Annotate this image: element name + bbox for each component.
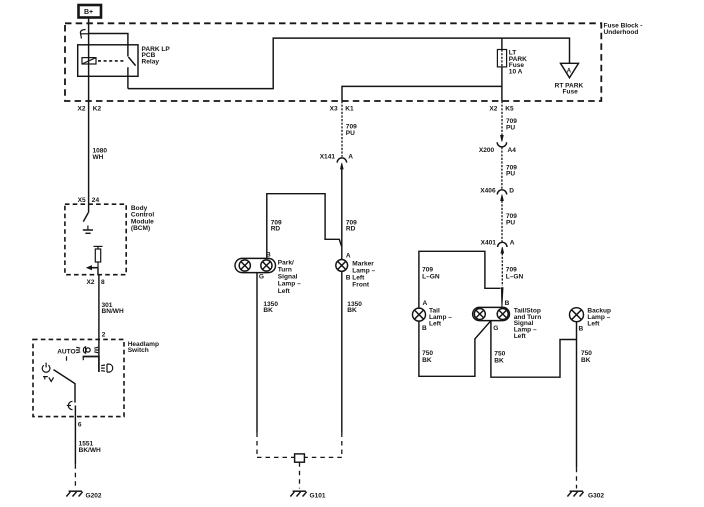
- lower contact hook: [67, 401, 73, 409]
- svg-text:750: 750: [422, 350, 433, 357]
- svg-text:Signal: Signal: [278, 274, 298, 281]
- svg-text:709: 709: [422, 267, 433, 274]
- headlamp on icon: [101, 364, 113, 372]
- pin labels X2 K2: [78, 106, 102, 113]
- BCM internal switch to ground: [83, 213, 93, 234]
- wire 301 BN/WH label: [102, 302, 124, 315]
- svg-text:B+: B+: [84, 9, 93, 16]
- wire park/turn lamp to splice: [256, 273, 258, 433]
- tail/stop and turn signal lamp left: [473, 300, 510, 332]
- BCM labels: [131, 205, 154, 232]
- headlamp on contact bar: [83, 357, 100, 373]
- wire 709 PU label (right top): [506, 118, 517, 131]
- marker lamp left front: [336, 252, 351, 281]
- wire X200 to X406 (dotted): [501, 147, 503, 190]
- AUTO position contact: [66, 356, 68, 360]
- wire X406 to X401 (dotted): [501, 201, 503, 243]
- svg-text:A4: A4: [508, 147, 517, 154]
- wire X141 down to marker lamp: [341, 169, 343, 259]
- svg-text:10 A: 10 A: [509, 69, 523, 76]
- svg-text:X5: X5: [78, 197, 86, 204]
- wire branch to X3/K1 pin: [342, 86, 502, 101]
- svg-text:PU: PU: [506, 220, 515, 227]
- headlamp switch labels: [128, 341, 159, 354]
- svg-text:Relay: Relay: [142, 58, 160, 65]
- RT PARK fuse labels: [555, 82, 584, 95]
- ground G302: [567, 491, 604, 499]
- wire driver to pin: [97, 268, 99, 275]
- svg-text:PU: PU: [506, 125, 515, 132]
- svg-text:PU: PU: [346, 130, 355, 137]
- svg-text:BK: BK: [263, 307, 273, 314]
- svg-text:A: A: [346, 252, 351, 259]
- relay PARK LP PCB box: [78, 45, 138, 77]
- connector X406: [480, 187, 514, 200]
- svg-text:8: 8: [101, 279, 105, 286]
- svg-text:RD: RD: [346, 226, 356, 233]
- svg-text:24: 24: [92, 197, 100, 204]
- wire 709 RD labels: [271, 219, 282, 232]
- svg-text:Front: Front: [352, 282, 370, 289]
- dashed wire to G101: [299, 462, 301, 488]
- wire B+ down to relay coil: [88, 18, 90, 101]
- svg-text:G: G: [259, 273, 264, 280]
- wire tail lamp to junction: [419, 321, 491, 377]
- park lamps icon: [76, 347, 99, 353]
- svg-text:B: B: [266, 251, 271, 258]
- wire 709 L-GN labels: [422, 267, 440, 281]
- svg-text:709: 709: [506, 267, 517, 274]
- wire 1080 WH label: [93, 148, 108, 161]
- tail lamp left: [413, 300, 428, 332]
- svg-text:BK: BK: [494, 358, 504, 365]
- wire backup lamp down to G302: [576, 322, 578, 468]
- svg-text:X2: X2: [78, 106, 86, 113]
- wire from relay switch to fuses: [128, 38, 570, 89]
- wire X3/K1 to X141 (dotted): [341, 101, 343, 157]
- svg-text:Lamp –: Lamp –: [278, 281, 301, 288]
- connector X401: [481, 240, 515, 254]
- svg-text:A: A: [510, 240, 515, 247]
- svg-text:Left: Left: [587, 321, 600, 328]
- svg-text:A: A: [423, 300, 428, 307]
- small park position icon: [43, 377, 54, 382]
- svg-text:Lamp –: Lamp –: [352, 267, 375, 274]
- node at LT PARK fuse top: [501, 38, 503, 49]
- svg-text:X2: X2: [489, 106, 497, 113]
- svg-text:2: 2: [102, 331, 106, 338]
- wire X2/K5 to X200 (dotted): [501, 101, 503, 135]
- wire marker lamp to splice: [341, 271, 343, 432]
- marker lamp labels: [352, 260, 375, 288]
- svg-text:K2: K2: [93, 106, 102, 113]
- wire BCM to headlamp switch: [98, 275, 100, 357]
- svg-text:BK/WH: BK/WH: [79, 447, 101, 454]
- svg-text:A: A: [348, 153, 353, 160]
- ground G101: [290, 491, 325, 499]
- svg-text:B: B: [346, 275, 351, 282]
- svg-text:G: G: [493, 325, 498, 332]
- svg-text:Fuse: Fuse: [563, 89, 579, 96]
- svg-text:D: D: [509, 187, 514, 194]
- wire 1350 BK labels: [263, 301, 278, 314]
- svg-text:Switch: Switch: [128, 347, 149, 354]
- svg-text:G202: G202: [86, 492, 102, 499]
- relay coil: [82, 58, 96, 64]
- pin labels X2 K5: [489, 106, 514, 113]
- relay mechanical link (dashed): [98, 60, 125, 62]
- svg-text:B: B: [422, 325, 427, 332]
- svg-text:G302: G302: [588, 492, 604, 499]
- svg-text:RD: RD: [271, 226, 281, 233]
- RT PARK fuse (triangle): [561, 63, 579, 77]
- svg-text:AUTO: AUTO: [57, 348, 75, 355]
- svg-text:Left: Left: [278, 288, 291, 295]
- branch wire to park/turn lamp: [267, 194, 342, 259]
- backup lamp labels: [587, 307, 611, 327]
- svg-text:X2: X2: [87, 279, 95, 286]
- svg-text:750: 750: [494, 351, 505, 358]
- svg-text:K5: K5: [505, 106, 514, 113]
- connector hook at relay feed node: [80, 30, 85, 39]
- battery B+ terminal: [79, 5, 102, 18]
- svg-text:X406: X406: [480, 187, 496, 194]
- svg-text:6: 6: [78, 422, 82, 429]
- tail lamp labels: [429, 307, 452, 327]
- relay switch lower terminal wire: [127, 67, 129, 88]
- svg-text:BK: BK: [422, 357, 432, 364]
- connector X200: [479, 135, 516, 154]
- svg-text:750: 750: [581, 350, 592, 357]
- svg-text:L–GN: L–GN: [422, 274, 440, 281]
- svg-text:K1: K1: [345, 106, 354, 113]
- fuse block label: [604, 23, 643, 36]
- LT PARK fuse labels: [509, 50, 527, 76]
- wire 709 PU label (right mid): [506, 164, 517, 177]
- svg-text:Underhood: Underhood: [604, 29, 639, 36]
- LT PARK fuse: [497, 50, 506, 67]
- park/turn signal lamp left: [235, 251, 276, 280]
- connector X141: [320, 153, 354, 169]
- svg-text:B: B: [505, 300, 510, 307]
- branch wire to tail lamp: [419, 251, 501, 308]
- relay labels: [142, 46, 171, 66]
- svg-text:BK: BK: [581, 357, 591, 364]
- svg-text:Left: Left: [514, 333, 527, 340]
- svg-text:Left: Left: [352, 275, 365, 282]
- svg-text:B: B: [579, 325, 584, 332]
- fuse block underhood box: [65, 23, 601, 101]
- wire fuse bottom to X2/K5 pin: [501, 67, 503, 101]
- pin labels X3 K1: [330, 106, 354, 113]
- svg-text:(BCM): (BCM): [131, 225, 150, 232]
- wire fuse block to BCM: [88, 101, 90, 213]
- wire contact to pin 6: [74, 406, 76, 417]
- ground G202: [66, 491, 101, 499]
- svg-text:L–GN: L–GN: [506, 274, 524, 281]
- headlamp switch box: [33, 339, 124, 416]
- svg-text:X200: X200: [479, 147, 495, 154]
- pin labels X2 8: [87, 279, 106, 286]
- pin labels X5 24: [78, 197, 100, 204]
- wire X401 to tail/stop lamp (dotted): [501, 253, 503, 286]
- svg-text:Left: Left: [429, 321, 442, 328]
- dashed wire to G202: [74, 464, 76, 488]
- switch blade: [54, 370, 76, 403]
- svg-text:Turn: Turn: [278, 267, 292, 274]
- backup lamp left: [570, 308, 584, 333]
- svg-text:X401: X401: [481, 240, 497, 247]
- svg-text:X141: X141: [320, 153, 336, 160]
- svg-text:BN/WH: BN/WH: [102, 308, 124, 315]
- park/turn lamp labels: [278, 259, 301, 294]
- relay switch blade: [128, 57, 135, 66]
- svg-text:WH: WH: [93, 154, 104, 161]
- tail/stop lamp labels: [514, 308, 542, 340]
- wire 709 PU label (middle): [346, 124, 357, 137]
- off position power icon: [42, 363, 50, 373]
- svg-text:Park/: Park/: [278, 259, 294, 266]
- wire 709 PU label (right lower): [506, 213, 517, 226]
- svg-text:BK: BK: [347, 307, 357, 314]
- wire branch to relay switch: [89, 34, 128, 57]
- splice S201: [295, 454, 305, 462]
- wire tail/stop G to right junction: [491, 321, 577, 377]
- BCM box: [65, 204, 126, 275]
- svg-text:PU: PU: [506, 171, 515, 178]
- wire 750 BK labels: [422, 350, 433, 364]
- svg-text:G101: G101: [310, 492, 326, 499]
- svg-text:X3: X3: [330, 106, 338, 113]
- BCM driver element (resistor with arrow): [86, 246, 103, 270]
- svg-text:Marker: Marker: [352, 260, 374, 267]
- svg-text:A: A: [567, 68, 572, 74]
- wire 1551 BK/WH: [74, 417, 76, 465]
